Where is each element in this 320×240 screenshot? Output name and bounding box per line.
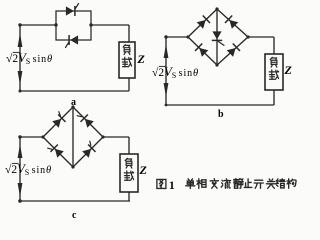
svg-text:Z: Z bbox=[284, 63, 293, 77]
svg-text:Z: Z bbox=[139, 163, 148, 177]
svg-text:a: a bbox=[71, 97, 76, 108]
svg-text:c: c bbox=[72, 210, 77, 221]
svg-text:Z: Z bbox=[137, 52, 146, 66]
svg-text:1: 1 bbox=[169, 180, 175, 192]
svg-text:b: b bbox=[218, 109, 224, 120]
